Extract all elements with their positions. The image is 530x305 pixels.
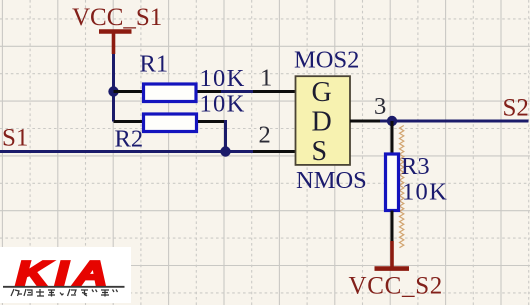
node junction S1/R2 bbox=[220, 146, 230, 156]
svg-text:2: 2 bbox=[259, 122, 271, 149]
wire S1 net horizontal bbox=[0, 150, 255, 153]
wire R2 right pin bbox=[198, 120, 224, 123]
resistor R3 bbox=[386, 154, 399, 211]
wire R2 down to S1 net bbox=[224, 120, 227, 152]
svg-text:1: 1 bbox=[260, 65, 272, 92]
node junction at R1 left bbox=[108, 86, 118, 96]
wire R2 left pin bbox=[114, 120, 143, 123]
KIA logo panel bbox=[0, 247, 131, 303]
resistor R1 bbox=[144, 84, 197, 102]
pin 3 stub of U:MOS2 bbox=[350, 120, 382, 123]
svg-text:VCC_S2: VCC_S2 bbox=[349, 273, 444, 300]
wire R3 top pin bbox=[391, 121, 394, 153]
svg-text:R2: R2 bbox=[115, 126, 144, 153]
svg-text:S1: S1 bbox=[2, 125, 28, 152]
svg-text:R1: R1 bbox=[140, 51, 169, 78]
error squiggle marker bbox=[400, 126, 404, 248]
svg-text:S2: S2 bbox=[503, 95, 529, 122]
svg-text:R3: R3 bbox=[401, 153, 430, 180]
pin 1 stub of U:MOS2 bbox=[253, 90, 296, 93]
svg-text:G: G bbox=[312, 77, 332, 108]
svg-text:S: S bbox=[312, 136, 328, 167]
svg-text:VCC_S1: VCC_S1 bbox=[72, 4, 162, 31]
svg-text:10K: 10K bbox=[402, 179, 448, 206]
node junction S2/R3 bbox=[387, 116, 397, 126]
KIA logo underline bbox=[3, 286, 125, 288]
wire VCC_S1 vertical bus bbox=[112, 54, 115, 122]
wire R3 bottom pin bbox=[391, 211, 394, 243]
pin 2 stub of U:MOS2 bbox=[253, 150, 296, 153]
resistor R2 bbox=[144, 114, 197, 132]
power port VCC_S1 bbox=[99, 32, 132, 55]
svg-text:3: 3 bbox=[374, 93, 386, 120]
wire R1 left pin bbox=[114, 90, 143, 93]
wire S2 net horizontal bbox=[380, 120, 529, 123]
wire R1 right pin bbox=[198, 90, 224, 93]
KIA slogan strokes bbox=[11, 289, 118, 297]
svg-text:10K: 10K bbox=[200, 65, 246, 92]
transistor MOS2 body bbox=[296, 76, 351, 165]
wire net R1 to pin1 bbox=[221, 90, 254, 93]
svg-text:NMOS: NMOS bbox=[296, 167, 367, 194]
svg-text:D: D bbox=[312, 107, 332, 138]
power port VCC_S2 bbox=[375, 241, 410, 269]
svg-text:MOS2: MOS2 bbox=[294, 47, 359, 74]
svg-text:10K: 10K bbox=[200, 91, 246, 118]
